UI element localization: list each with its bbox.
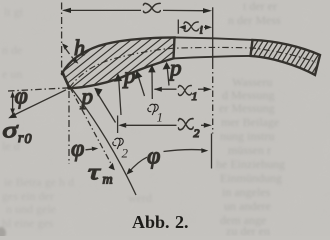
left end face emphasis [63,73,70,88]
svg-text:0: 0 [25,132,32,147]
big phi angle arc [127,148,209,174]
horizontal tangent dash-dot at hinge [8,88,70,91]
svg-text:p: p [168,56,182,81]
svg-text:Abb.: Abb. [132,212,170,232]
svg-text:p: p [80,84,94,109]
svg-text:Einmündung: Einmündung [220,171,282,185]
right vertical reference line [212,7,214,62]
svg-text:φ: φ [147,144,160,170]
svg-text:2: 2 [194,126,200,140]
svg-text:n und gele: n und gele [6,202,56,216]
lower vertical dash-dot line below hinge [68,91,70,164]
svg-text:i: i [200,23,203,37]
load arrow p1 [94,88,115,123]
svg-text:2: 2 [122,146,129,161]
tau_m radius solid line [72,89,136,195]
left vertical centerline (dash-dot through outer corner) [61,3,63,73]
corner smudge [0,227,6,239]
arch gap inner line [174,56,251,59]
dimension x_i [178,20,212,34]
load arrow p3 [135,71,145,97]
arch gap outer line [175,37,253,40]
svg-text:d Messung: d Messung [222,88,274,102]
label P1 (fraktur) [148,104,158,115]
svg-text:φ: φ [15,84,28,110]
hinge junction node [67,86,71,90]
hatching left segment [0,33,263,92]
dimension x [62,8,212,14]
svg-text:2.: 2. [175,212,189,232]
h double arrow [62,43,78,64]
svg-text:1: 1 [192,89,198,103]
svg-text:hl eine ges: hl eine ges [2,216,54,230]
svg-text:t der er: t der er [243,0,277,13]
svg-text:lt gt: lt gt [4,5,24,19]
svg-text:1: 1 [157,110,164,125]
svg-text:müssen r: müssen r [228,143,271,157]
svg-text:er Messung: er Messung [219,101,275,115]
load arrow p5 [163,62,171,86]
svg-text:m: m [103,173,113,188]
label P2 (fraktur) + radius dash-dot arrow [113,138,123,149]
svg-text:n der Mess: n der Mess [228,13,281,27]
svg-text:mer Beilage: mer Beilage [221,115,279,129]
svg-text:ie Betra ge h d: ie Betra ge h d [4,175,74,189]
arch centerline dash-dot [70,47,317,87]
svg-text:Wasseru: Wasseru [232,75,272,89]
arch right segment outline [251,40,321,75]
outer corner node [61,72,65,76]
svg-text:un andere: un andere [224,199,271,213]
svg-text:he Einziehung: he Einziehung [216,157,285,171]
ghost bleed-through text right column [216,0,285,238]
label x [143,3,160,12]
load arrow p2 [114,74,122,116]
svg-text:τ: τ [88,160,101,185]
label x_2 [178,119,193,130]
label tau_m [88,160,101,185]
svg-text:n de: n de [2,43,22,57]
dimension x_1 [154,87,212,92]
sigma_r0 arrow [8,90,66,118]
label x_i [184,22,198,31]
svg-text:r: r [18,131,24,146]
load arrow p4 vertical [148,65,155,99]
hatching right segment [176,36,330,78]
svg-text:σ: σ [3,117,19,143]
svg-text:e un: e un [2,67,22,81]
label sigma_r0 [3,117,19,143]
svg-text:in angeles: in angeles [222,185,271,199]
svg-text:werd: werd [128,191,152,205]
label x_1 [178,86,191,96]
arch left segment outline [63,37,175,88]
svg-text:zu der en: zu der en [226,224,270,236]
svg-text:h: h [74,35,85,60]
svg-text:p: p [122,63,136,88]
svg-text:φ: φ [71,136,84,162]
ghost bleed-through text left/bottom [2,5,152,230]
phi angle vertical double arrow (top left) [10,91,15,115]
dimension x_2 [118,116,212,134]
svg-text:nung instru: nung instru [220,129,274,143]
svg-text:ges ein der: ges ein der [2,189,54,203]
